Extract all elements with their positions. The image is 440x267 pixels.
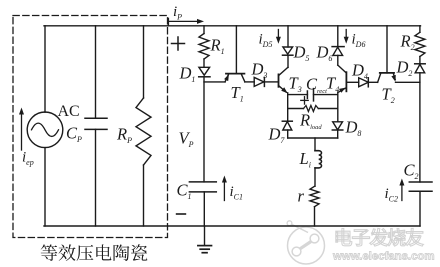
wire T2 emitter to D2 node	[396, 81, 420, 83]
arrow iD5	[277, 30, 279, 39]
arrow iC1	[223, 181, 225, 201]
transistor T4	[338, 65, 346, 73]
wire Rp branch top	[143, 26, 145, 98]
wire Crect right stub	[314, 94, 338, 96]
wire D6 top	[337, 26, 339, 47]
resistor R2	[415, 32, 425, 56]
wire bridge bottom	[288, 137, 338, 139]
resistor Rload	[304, 106, 319, 112]
wire AC branch bottom	[44, 148, 46, 226]
svg-text:www.elecfans.com: www.elecfans.com	[332, 251, 435, 263]
wire r bottom	[314, 207, 316, 226]
wire D7 bottom	[287, 130, 289, 138]
wire C1 bottom	[203, 192, 205, 226]
wire C2 bottom	[419, 191, 421, 226]
wire D8 bottom	[337, 130, 339, 138]
ground	[198, 246, 212, 253]
wire Rp branch bottom	[143, 165, 145, 226]
transistor T1	[226, 73, 244, 75]
diode D7	[282, 120, 292, 122]
wire top rail	[44, 25, 421, 27]
AC source circle	[27, 112, 63, 148]
arrow iep	[21, 113, 23, 150]
diode D8	[333, 122, 343, 130]
wire R1 top stub	[203, 26, 205, 34]
wire D4 to T2	[368, 81, 377, 83]
wire Li to r	[314, 168, 316, 186]
wire D2 down to C2	[419, 73, 421, 182]
capacitor C2	[409, 181, 432, 183]
wire Cp branch top	[95, 26, 97, 118]
diode D4	[359, 78, 369, 87]
diode D2	[415, 63, 426, 65]
arrow iC2	[401, 184, 403, 201]
wire Rload left stub	[288, 108, 304, 110]
arrow iP	[168, 18, 170, 26]
wire Crect left stub	[288, 94, 308, 96]
wire D3 to T3 base	[264, 81, 277, 83]
wire R1-D1	[203, 59, 205, 67]
wire Rload right stub	[318, 108, 338, 110]
wire R2 top stub	[419, 26, 421, 33]
caption 等效压电陶瓷	[41, 244, 58, 261]
watermark logo	[287, 221, 324, 264]
transistor T3	[278, 74, 280, 86]
diode D6	[332, 46, 344, 48]
wire node to T1 base	[204, 81, 225, 83]
watermark text 电子发烧友	[336, 229, 352, 246]
diode D1	[199, 67, 210, 75]
inductor Li	[315, 151, 322, 168]
resistor R1	[199, 34, 209, 60]
wire D6 to T4 collector	[337, 55, 339, 65]
wire R2-D2	[419, 57, 421, 64]
wire bottom rail	[44, 225, 420, 227]
wire left bridge rail	[287, 93, 289, 121]
plus sign Vp	[172, 37, 185, 50]
wire T1 to D3	[245, 81, 254, 83]
wire D5 top	[287, 26, 289, 47]
wire D5 to T3 collector	[287, 55, 289, 67]
transistor T2	[378, 73, 381, 82]
wire Cp branch bottom	[95, 129, 97, 226]
svg-text:r: r	[298, 187, 305, 206]
wire AC branch top	[44, 26, 46, 112]
minus sign Vp	[177, 213, 186, 215]
diode D5	[283, 47, 293, 54]
capacitor Crect	[306, 91, 308, 98]
capacitor Cp	[85, 117, 107, 119]
wire D1 to Vp/C1	[203, 77, 205, 182]
resistor r	[310, 186, 319, 206]
wire to ground	[204, 226, 206, 245]
wire right bridge rail	[337, 92, 339, 121]
arrow iD6	[345, 30, 347, 39]
wire bridge tap down	[314, 138, 316, 151]
plus sign Crect	[301, 97, 308, 104]
diode D3	[254, 77, 264, 86]
dashed box: equivalent piezoelectric ceramic	[13, 16, 168, 238]
capacitor C1	[189, 181, 216, 183]
resistor Rp	[136, 98, 151, 165]
wire T4 base to D4	[346, 81, 358, 83]
svg-text:AC: AC	[58, 103, 80, 120]
